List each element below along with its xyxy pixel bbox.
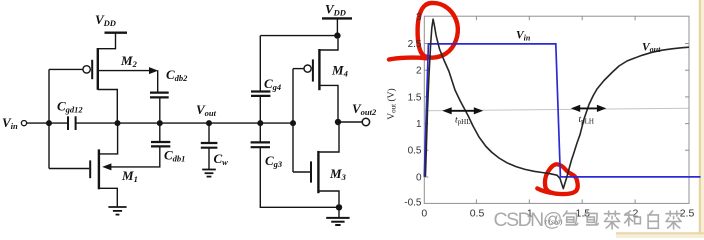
svg-text:M4: M4 xyxy=(331,63,348,79)
svg-text:VDD: VDD xyxy=(95,12,116,28)
dotted half-VDD line xyxy=(425,108,689,111)
wire rail node to Cgd12 xyxy=(49,122,68,124)
svg-text:Cg4: Cg4 xyxy=(264,76,281,92)
svg-text:2.5: 2.5 xyxy=(408,39,422,50)
wire Cw top lead xyxy=(208,123,210,143)
wire input node to M1 gate xyxy=(49,168,89,170)
hanzi bao 1 xyxy=(563,211,577,225)
hanzi bai xyxy=(648,211,658,228)
wire Vout2 stub xyxy=(338,121,362,123)
wire Cdb1 arrow to M1 drain xyxy=(109,146,160,167)
wire Cg4 to rail xyxy=(259,96,261,123)
svg-text:Vout: Vout xyxy=(196,102,217,118)
node Vin terminal xyxy=(21,121,26,126)
svg-text:CSDN@: CSDN@ xyxy=(494,209,562,231)
wire M3 source to ground xyxy=(338,207,340,217)
page right border strip (cream) xyxy=(699,0,704,238)
svg-text:0.5: 0.5 xyxy=(470,208,485,220)
svg-text:Cgd12: Cgd12 xyxy=(57,99,83,115)
node Vout2 terminal xyxy=(362,118,369,125)
svg-text:1: 1 xyxy=(416,119,422,130)
hanzi cai 2 xyxy=(666,211,681,229)
wire Cw to ground xyxy=(208,148,210,170)
svg-text:M1: M1 xyxy=(121,168,138,184)
plot box xyxy=(424,16,689,203)
svg-text:Vin: Vin xyxy=(2,115,18,131)
wire gate node to M3 gate xyxy=(293,171,310,173)
wire Cgd12 to Vout rail xyxy=(76,122,293,124)
transistor M3 (NMOS) xyxy=(311,125,339,204)
watermark hanzi (drawn strokes) xyxy=(563,211,681,229)
svg-text:VDD: VDD xyxy=(325,2,346,18)
capacitor Cdb2 xyxy=(150,93,169,98)
curve Vin (blue) xyxy=(424,44,700,177)
svg-text:Cdb1: Cdb1 xyxy=(164,148,185,164)
curve Vout (black) xyxy=(425,19,689,188)
capacitor Cgd12 xyxy=(68,116,76,130)
y tick labels xyxy=(404,12,422,209)
hanzi he xyxy=(625,211,641,226)
ground (Cw) xyxy=(202,170,216,177)
transistor M1 (NMOS) xyxy=(90,123,117,207)
wire gate node to M4 bubble xyxy=(293,68,304,70)
svg-text:Vout2: Vout2 xyxy=(352,101,377,117)
svg-text:Cg3: Cg3 xyxy=(265,153,283,169)
svg-text:-0.5: -0.5 xyxy=(404,198,422,209)
svg-text:Vout: Vout xyxy=(642,42,661,55)
wire Cg3 to M3 source node xyxy=(260,147,339,207)
red annotation circle (overshoot) xyxy=(418,3,458,58)
ground (M1 source) xyxy=(108,207,126,215)
power VDD rail (stage 1) xyxy=(105,32,128,34)
svg-text:0: 0 xyxy=(416,173,422,184)
capacitor Cw xyxy=(201,143,218,148)
power VDD rail (stage 2) xyxy=(322,17,352,19)
wire input node vertical xyxy=(48,69,50,168)
junction dots stage 2 xyxy=(257,32,342,210)
red annotation tail (undershoot) xyxy=(537,188,550,192)
svg-text:Cw: Cw xyxy=(214,151,229,167)
svg-text:M3: M3 xyxy=(329,166,347,182)
svg-text:M2: M2 xyxy=(120,53,138,69)
wire Cdb2 top lead xyxy=(157,70,159,92)
svg-text:tpLH: tpLH xyxy=(579,115,594,126)
hanzi cai 1 xyxy=(605,211,620,229)
axis ticks xyxy=(424,16,689,203)
svg-text:0: 0 xyxy=(421,208,427,220)
wire M2 arrow to Cdb2 xyxy=(99,70,151,72)
arrow tPHL xyxy=(442,107,483,114)
x tick labels xyxy=(421,208,694,220)
transistor M2 (PMOS) xyxy=(83,34,117,124)
red annotation tail (left stroke) xyxy=(389,58,427,60)
svg-text:3: 3 xyxy=(416,12,422,23)
arrow tPLH xyxy=(571,105,607,112)
transistor M4 (PMOS) xyxy=(304,39,338,122)
svg-text:Vin: Vin xyxy=(516,30,531,43)
capacitor Cdb1 xyxy=(151,142,170,146)
red annotation circle (undershoot) xyxy=(545,164,578,194)
wire VDD lead (stage 2) xyxy=(336,19,338,36)
capacitor Cg3 xyxy=(251,142,270,147)
hanzi bao 2 xyxy=(584,211,598,225)
wire VDD node to Cg4 xyxy=(260,35,337,37)
svg-text:0.5: 0.5 xyxy=(408,146,422,157)
svg-text:Vout (V): Vout (V) xyxy=(386,88,398,119)
page bottom-right quote box (beige band) xyxy=(616,232,704,238)
svg-text:tpHL: tpHL xyxy=(455,116,470,127)
svg-text:2: 2 xyxy=(416,66,422,77)
svg-text:Cdb2: Cdb2 xyxy=(166,67,188,83)
wire Cg3 top lead xyxy=(259,123,261,142)
wire input node to M2 gate xyxy=(49,68,83,70)
wire Cdb2 to rail xyxy=(159,97,161,123)
wire Cg4 top lead xyxy=(259,36,261,92)
junction dots stage 1 xyxy=(46,120,212,126)
capacitor Cg4 xyxy=(251,92,270,96)
wire Vin to input node xyxy=(27,122,49,124)
ground (M3 source) xyxy=(326,218,349,225)
wire Cdb1 top lead xyxy=(159,123,161,142)
svg-text:1.5: 1.5 xyxy=(408,92,422,103)
wire gate node vertical xyxy=(292,69,294,172)
